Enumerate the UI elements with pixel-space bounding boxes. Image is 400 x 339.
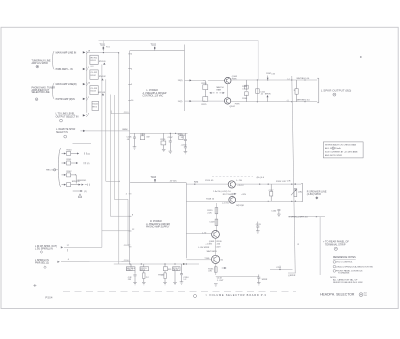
svg-text:R126 1.2K: R126 1.2K xyxy=(276,181,286,183)
wire: second drive line xyxy=(186,198,301,202)
resistor R151 xyxy=(126,264,135,274)
relay K102 xyxy=(90,70,107,81)
wire: v2 xyxy=(106,79,119,181)
svg-text:AND NOTE SPKR: AND NOTE SPKR xyxy=(325,154,342,157)
svg-text:R148/101: R148/101 xyxy=(78,180,88,182)
module box A1 right edge xyxy=(184,45,186,112)
transistor Q105 xyxy=(204,255,224,263)
svg-text:T103: T103 xyxy=(151,176,157,179)
wire: Q102 collector to bus xyxy=(231,101,258,103)
svg-text:PWTR AMP (R)IN: PWTR AMP (R)IN xyxy=(56,98,75,101)
node: rear panel text block xyxy=(323,241,349,251)
wire: Q103 out to rail xyxy=(235,183,301,185)
svg-text:WHT/BLK 4.0: WHT/BLK 4.0 xyxy=(297,78,311,80)
svg-text:(2): (2) xyxy=(84,191,87,193)
wire: Q101 collector to bus xyxy=(231,79,257,81)
node: output bracket 2 xyxy=(301,184,303,202)
svg-text:2W: 2W xyxy=(128,279,131,281)
svg-text:CL-R3: CL-R3 xyxy=(91,88,98,90)
wire: input row 4 xyxy=(56,97,89,101)
wire: box2 to Q104 xyxy=(186,233,211,235)
svg-text:(B+) 4.0: (B+) 4.0 xyxy=(257,177,265,179)
svg-text:+35.1V: +35.1V xyxy=(237,185,244,187)
resistor R129 xyxy=(207,208,217,215)
svg-text:MAIN AMP LINE(R): MAIN AMP LINE(R) xyxy=(56,83,77,86)
svg-text:PAIR: PAIR xyxy=(217,88,222,91)
svg-text:C130: C130 xyxy=(271,210,277,212)
wire: spkr line to rear panel xyxy=(289,216,325,217)
capacitor C107 xyxy=(168,133,174,154)
svg-text:C128: C128 xyxy=(209,221,215,223)
resistor R126 xyxy=(268,180,296,202)
wire: relay bus left edge xyxy=(86,52,88,113)
svg-text:B(131)R: B(131)R xyxy=(236,205,244,207)
svg-text:K104: K104 xyxy=(93,104,99,106)
resistor R108 between speaker lines xyxy=(294,80,299,102)
resistor R124 xyxy=(202,80,208,93)
node: source label block 1 xyxy=(32,60,51,65)
svg-text:RY102: RY102 xyxy=(99,76,106,78)
svg-text:(+1.5V): (+1.5V) xyxy=(222,203,229,205)
svg-text:C/R: C/R xyxy=(287,180,291,182)
node: R127 labels xyxy=(213,191,246,207)
node: circled ref 2 xyxy=(35,98,38,101)
svg-text:R125: R125 xyxy=(202,104,208,106)
wire: between Q101/Q102 xyxy=(227,84,229,98)
node: speaker output label 2 xyxy=(307,190,327,199)
svg-text:1K 5%: 1K 5% xyxy=(173,270,179,272)
transistor Q104 xyxy=(202,231,219,244)
node: reference notes heading xyxy=(333,257,356,259)
node: rec out label xyxy=(46,169,58,172)
node: source label block 2 xyxy=(32,87,56,94)
capacitor C111 xyxy=(256,89,266,96)
svg-text:SELECTOR LINE: SELECTOR LINE xyxy=(32,92,51,94)
svg-text:PWR: PWR xyxy=(232,79,237,81)
wire: remote line y=130.9 xyxy=(56,129,130,138)
svg-text:K101: K101 xyxy=(91,60,97,62)
node: labels below Q105 xyxy=(217,278,224,282)
resistor R143 row4 xyxy=(62,180,90,186)
wire: input row 1 xyxy=(56,51,91,55)
node: note item 2 xyxy=(333,265,373,268)
svg-text:VOL 5 CONTROL: VOL 5 CONTROL xyxy=(336,262,353,264)
capacitor C130 with ground xyxy=(271,210,281,217)
wire: vertical to rear panel xyxy=(319,217,321,275)
svg-text:WHT/RED 4.0: WHT/RED 4.0 xyxy=(297,100,311,102)
svg-text:C126 .05: C126 .05 xyxy=(205,180,214,182)
wire: rc chain bus xyxy=(130,132,188,134)
node: connector label row 2 xyxy=(35,259,124,269)
svg-text:P504: P504 xyxy=(45,297,53,300)
wire: Q105 emitter down xyxy=(215,264,217,276)
module box A2 top edge xyxy=(130,182,186,184)
node: box2 assembly label xyxy=(145,221,170,229)
node: connector label row 1 xyxy=(35,245,102,253)
wire: v4 xyxy=(114,95,130,245)
wire: line into box1 at 113.7 xyxy=(111,111,129,114)
node: box1 pin ticks xyxy=(128,54,134,102)
transistor Q102 xyxy=(224,98,240,108)
svg-text:R106: R106 xyxy=(242,98,248,100)
node: pin label 11 xyxy=(178,100,203,103)
wire: rail bottom tail xyxy=(288,244,300,277)
node: arrow up output xyxy=(257,93,291,101)
power rail: +35V vertical xyxy=(292,76,295,273)
node: junction xyxy=(175,133,176,134)
svg-text:3: 3 xyxy=(88,113,89,115)
resistor R131 xyxy=(209,219,217,225)
svg-text:AMP LVL SPKR: AMP LVL SPKR xyxy=(32,62,49,65)
node: note item 1 xyxy=(333,261,353,264)
node: rec out bracket xyxy=(59,148,62,187)
svg-text:(4-8Ω) SPKR: (4-8Ω) SPKR xyxy=(307,193,321,196)
svg-text:R. POWER: R. POWER xyxy=(150,221,162,223)
svg-text:R CHASSIS: R CHASSIS xyxy=(338,272,350,275)
node: bracket rows 1-2 xyxy=(53,51,55,69)
svg-text:WITHIN EACH CH. CHECK BIAS: WITHIN EACH CH. CHECK BIAS xyxy=(325,143,357,146)
node: circled ref 1 xyxy=(36,65,39,68)
resistor R153 xyxy=(163,264,172,285)
module box A1 left edge xyxy=(129,51,131,265)
ground: chassis A symbol xyxy=(78,194,82,198)
svg-text:L SPKR OUTPUT (8Ω): L SPKR OUTPUT (8Ω) xyxy=(321,88,351,92)
svg-text:(1K): (1K) xyxy=(298,192,302,194)
resistor R114 xyxy=(140,133,149,139)
transformer T101 label xyxy=(100,44,111,52)
ground below Q105 xyxy=(214,284,218,286)
svg-text:K102: K102 xyxy=(91,75,97,77)
wire: dashed B+ hint xyxy=(212,177,265,179)
svg-text:SPKR(+) WHT 4.0: SPKR(+) WHT 4.0 xyxy=(291,217,309,219)
resistor R140 row1 xyxy=(62,150,91,156)
wire: output bus vertical xyxy=(256,80,258,102)
transformer T103 xyxy=(151,176,157,183)
svg-text:+20V: +20V xyxy=(241,194,246,196)
svg-text:Q102: Q102 xyxy=(230,106,236,108)
svg-text:C2-1: C2-1 xyxy=(124,112,130,114)
svg-text:(2): (2) xyxy=(88,153,91,155)
node: box2 pin ticks xyxy=(126,194,135,247)
svg-text:HEADPH. SELECTOR: HEADPH. SELECTOR xyxy=(320,293,355,297)
svg-text:C131: C131 xyxy=(256,224,262,226)
node: junction dots on output bus xyxy=(257,79,258,80)
resistor R135 xyxy=(208,267,226,273)
wire: v5 xyxy=(119,53,131,264)
svg-text:11(2): 11(2) xyxy=(178,101,183,103)
svg-text:TERMINAL STRIP: TERMINAL STRIP xyxy=(325,243,346,246)
svg-text:R(B): R(B) xyxy=(194,181,199,183)
transformer T102 xyxy=(151,44,157,51)
svg-text:K103: K103 xyxy=(91,91,97,93)
node: labels below Q104 xyxy=(198,241,222,253)
svg-text:L. POWER: L. POWER xyxy=(147,90,159,92)
svg-text:SPKR: SPKR xyxy=(262,279,268,281)
module box A2 right edge xyxy=(185,183,187,259)
node: separator circled ref xyxy=(194,295,197,298)
wire: relay bus top xyxy=(87,52,119,54)
svg-text:L. REMOTE SPKR: L. REMOTE SPKR xyxy=(56,129,76,131)
node: pin label 13 xyxy=(178,79,203,82)
capacitor C109 xyxy=(181,133,188,154)
resistor R154 xyxy=(173,267,181,285)
svg-text:L/R(2) & SPKR(2) S.A./SELECTOR: L/R(2) & SPKR(2) S.A./SELECTOR SW xyxy=(336,265,373,268)
svg-text:1W: 1W xyxy=(146,137,149,139)
node: drawing title xyxy=(320,292,367,297)
node: bracket rows 3-4 xyxy=(53,83,55,99)
transistor Q101 xyxy=(225,76,238,84)
wire: input row 2 xyxy=(56,67,89,71)
wire: bottom chain bus xyxy=(114,263,199,265)
capacitor C127 between rails xyxy=(269,184,275,201)
resistor R107 xyxy=(257,73,291,102)
svg-text:470.2: 470.2 xyxy=(140,270,145,272)
svg-text:PWR AMP L. IN: PWR AMP L. IN xyxy=(56,68,73,71)
svg-text:(2): (2) xyxy=(87,163,90,165)
svg-text:RESISTOR VALUES IN Ω 1/4W: RESISTOR VALUES IN Ω 1/4W xyxy=(333,281,362,284)
svg-text:2: 2 xyxy=(88,97,89,99)
svg-text:R116: R116 xyxy=(161,139,167,141)
capacitor C134 xyxy=(180,264,190,284)
svg-text:> VOLUME SELECTOR BOARD P.3: > VOLUME SELECTOR BOARD P.3 xyxy=(206,293,267,297)
svg-text:R127 1K(B): R127 1K(B) xyxy=(223,194,234,196)
svg-text:(.)SPKR: (.)SPKR xyxy=(288,275,296,277)
resistor R152 xyxy=(140,264,150,285)
svg-text:L.SU SPKR(L) IN: L.SU SPKR(L) IN xyxy=(35,249,53,251)
svg-text:CONTROL 115 VAC: CONTROL 115 VAC xyxy=(143,95,164,98)
svg-text:OUTPUT SELECT IN: OUTPUT SELECT IN xyxy=(56,116,79,119)
svg-text:C129: C129 xyxy=(215,247,221,249)
relay K103 xyxy=(90,86,106,96)
resistor R116 xyxy=(161,133,167,151)
potentiometer VR101 bias xyxy=(291,189,302,197)
node: output bracket xyxy=(317,78,319,103)
svg-text:1.8±.5V (+0.5V) 7.0: 1.8±.5V (+0.5V) 7.0 xyxy=(213,191,231,193)
svg-text:IDLE CURRENT AT +25 DEG AMB: IDLE CURRENT AT +25 DEG AMB xyxy=(325,151,358,154)
resistor R141 row2 xyxy=(62,159,90,165)
wire: speaker line lower xyxy=(292,100,317,103)
node: rail junctions xyxy=(291,79,292,80)
transistor Q103 xyxy=(228,180,244,188)
svg-text:CL-R2: CL-R2 xyxy=(91,72,98,74)
svg-text:C2-6: C2-6 xyxy=(124,260,130,262)
capacitor C105 xyxy=(127,133,137,149)
svg-text:1.7V: 1.7V xyxy=(202,233,207,235)
svg-text:+1.35V: +1.35V xyxy=(205,243,212,245)
svg-text:PWR: PWR xyxy=(235,104,240,106)
resistor R115 xyxy=(178,133,184,139)
capacitor C133 xyxy=(257,275,268,286)
svg-text:PHONO AMP SUPPLY: PHONO AMP SUPPLY xyxy=(146,226,170,229)
wire: v3 xyxy=(110,95,130,217)
svg-text:(+): (+) xyxy=(287,78,290,80)
svg-text:45 VDC: 45 VDC xyxy=(170,181,178,183)
svg-text:+C110: +C110 xyxy=(181,145,188,147)
svg-text:C2-5: C2-5 xyxy=(124,245,130,247)
svg-text:RY101: RY101 xyxy=(99,61,106,63)
wire: Q104a emitter chain xyxy=(215,203,217,231)
resistor R125 xyxy=(202,80,225,105)
module box A1 top edge xyxy=(130,50,185,52)
svg-text:A. PREAMP & DRIVER: A. PREAMP & DRIVER xyxy=(145,223,170,226)
svg-text:MAIN AMP LINE IN: MAIN AMP LINE IN xyxy=(56,51,77,54)
svg-text:REM: REM xyxy=(123,129,128,131)
node: bottom note xyxy=(330,277,362,284)
svg-text:REC OUT: REC OUT xyxy=(46,170,57,172)
wire: Q104 to Q105 xyxy=(215,238,217,255)
wire: speaker line upper xyxy=(292,78,317,81)
svg-text:A. PREAMP & DRIVER: A. PREAMP & DRIVER xyxy=(142,92,167,95)
svg-text:L.CH SPKR: L.CH SPKR xyxy=(198,247,209,249)
svg-text:R128 10: R128 10 xyxy=(206,198,215,200)
svg-text:16: 16 xyxy=(88,82,90,84)
wire: Q105 emitter line right xyxy=(216,276,259,278)
wire: v1 to lower box pin xyxy=(102,64,130,247)
node: sheet dot mark xyxy=(360,56,362,58)
resistor R142 row3 xyxy=(62,171,77,183)
svg-text:T101: T101 xyxy=(100,44,106,47)
node: top labels near y=216 xyxy=(291,216,318,218)
resistor R105 stack xyxy=(242,80,248,102)
wire: row5 arrow line xyxy=(73,190,87,193)
svg-text:RY-R1: RY-R1 xyxy=(91,57,98,59)
wire: input row 3 xyxy=(56,82,91,86)
svg-text:REFERENCE NOTES: REFERENCE NOTES xyxy=(333,257,356,259)
svg-text:2.2K: 2.2K xyxy=(207,212,212,214)
svg-text:13(2): 13(2) xyxy=(178,80,183,82)
wire: upper drive line from box2 xyxy=(186,180,228,184)
wire: right lower output line xyxy=(270,266,293,271)
relay K104 xyxy=(92,101,99,110)
wire: line from box2 to Q105 xyxy=(186,259,211,261)
node: box1 assembly label xyxy=(142,90,167,98)
wire: input row 5 xyxy=(56,113,89,122)
transistor Q104a xyxy=(222,197,236,205)
wire: top rail to output bus xyxy=(99,40,259,42)
svg-text:1: 1 xyxy=(88,67,89,69)
capacitor C131 xyxy=(256,222,262,234)
svg-text:R114: R114 xyxy=(140,134,146,136)
node: bottom-left plus mark xyxy=(33,284,36,287)
node: speaker output label xyxy=(321,88,351,96)
svg-text:L. CH: L. CH xyxy=(236,180,242,182)
node: thermal couple dashed xyxy=(209,86,224,94)
svg-text:18: 18 xyxy=(88,51,90,53)
svg-text:C101.2: C101.2 xyxy=(127,270,133,272)
wire: stub above rec block xyxy=(73,143,92,145)
relay K101 xyxy=(90,55,107,68)
svg-text:PWR.SEL.(2): PWR.SEL.(2) xyxy=(35,262,49,264)
svg-text:SELECT IN: SELECT IN xyxy=(56,132,68,134)
node: note item 3 xyxy=(333,269,363,274)
svg-text:1. OUT: 1. OUT xyxy=(217,280,224,282)
svg-text:SPKR: SPKR xyxy=(265,93,271,95)
svg-text:T102: T102 xyxy=(151,44,157,47)
capacitor C151 xyxy=(128,275,137,285)
wire: dashed board separator xyxy=(63,291,296,293)
